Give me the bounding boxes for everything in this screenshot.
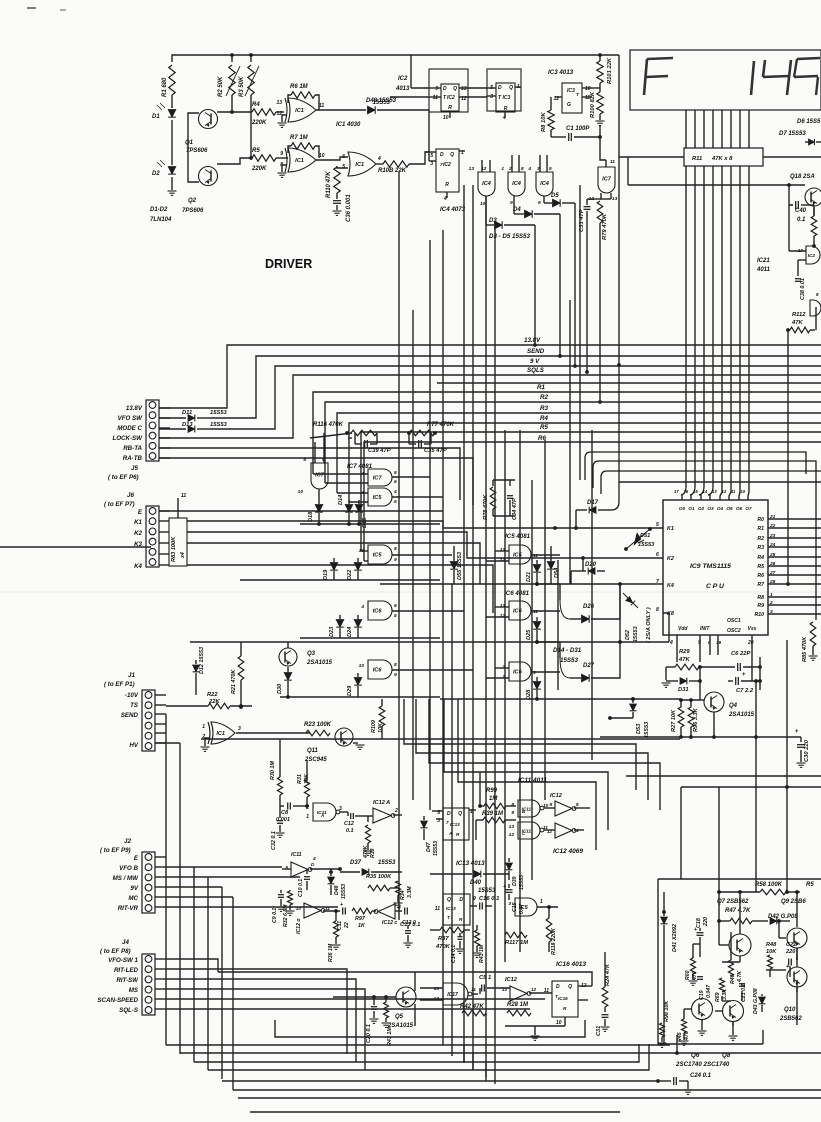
- svg-text:11: 11: [435, 906, 440, 912]
- wire R11 to CPU bus: [685, 166, 687, 486]
- capacitor C32: [279, 806, 281, 818]
- resistor R79: [610, 193, 612, 199]
- svg-text:D6 15S5: D6 15S5: [797, 119, 821, 125]
- svg-text:-10V: -10V: [125, 692, 139, 699]
- capacitor C35: [408, 433, 410, 444]
- svg-text:1: 1: [306, 814, 309, 820]
- ground Q8: [732, 1022, 734, 1035]
- svg-text:15S53: 15S53: [210, 410, 228, 416]
- display digit 4: [763, 60, 791, 95]
- wire bottom bus 7: [238, 1097, 821, 1099]
- svg-text:D: D: [443, 86, 447, 92]
- svg-text:C P U: C P U: [706, 583, 725, 590]
- svg-text:220K: 220K: [251, 120, 267, 126]
- svg-text:4013: 4013: [395, 86, 410, 92]
- svg-text:R24 47K: R24 47K: [605, 963, 611, 986]
- svg-text:6: 6: [656, 552, 659, 558]
- LED D2: [171, 120, 173, 165]
- wire trunk v4: [442, 230, 444, 972]
- svg-text:R22: R22: [207, 692, 218, 698]
- svg-text:Q9 2SB6: Q9 2SB6: [781, 899, 806, 905]
- wire col 719: [718, 787, 720, 879]
- wire ff1 left feed: [390, 96, 429, 98]
- svg-text:5: 5: [394, 499, 397, 505]
- resistor R117: [505, 932, 527, 938]
- ic IC2 outer box: [429, 69, 468, 112]
- wire gate row tie: [300, 523, 440, 525]
- wire K1 net: [187, 521, 663, 528]
- wire bottom bus 5: [222, 1080, 658, 1082]
- svg-text:J5: J5: [131, 465, 138, 472]
- ic IC3 ff: [496, 83, 515, 112]
- svg-text:C21 0.1: C21 0.1: [741, 984, 747, 1002]
- wire D41 col: [662, 910, 666, 914]
- svg-text:+: +: [795, 729, 799, 735]
- wire CPU R pin: [768, 518, 821, 520]
- wire display bus: [685, 110, 687, 148]
- ic IC5c gate: [509, 545, 531, 564]
- power section box: [658, 878, 821, 880]
- ground R60: [692, 974, 694, 980]
- svg-text:IC13: IC13: [446, 906, 456, 911]
- wire R22 junction: [239, 704, 243, 708]
- svg-text:R11: R11: [692, 156, 702, 162]
- wire IC16 pins: [578, 985, 592, 987]
- wire bus R3: [337, 413, 821, 493]
- svg-text:D: D: [498, 85, 502, 91]
- svg-text:A: A: [320, 813, 324, 818]
- display digit 1: [751, 61, 754, 95]
- transistor Q7: [729, 934, 751, 956]
- wire left trunk 5: [221, 887, 223, 1079]
- wire C21 down: [741, 991, 743, 1001]
- wire row 776: [626, 775, 821, 777]
- wire bus R6: [364, 442, 821, 561]
- wire ff3 left net: [428, 110, 430, 161]
- wire Q18 emitter chain: [813, 207, 815, 216]
- wire col 787: [786, 640, 788, 879]
- svg-text:IC2: IC2: [443, 162, 451, 168]
- svg-text:Vdd: Vdd: [678, 626, 688, 632]
- xor gate IC1a: [288, 98, 316, 122]
- svg-text:LOCK-SW: LOCK-SW: [112, 435, 143, 442]
- wire row 737: [600, 736, 801, 738]
- wire R112 column: [787, 330, 789, 584]
- ground R98: [661, 1037, 663, 1042]
- wire Q7 base: [719, 944, 729, 946]
- wire bus RA-TB row: [159, 458, 473, 505]
- svg-text:R117 1M: R117 1M: [505, 940, 528, 946]
- svg-text:R23 100K: R23 100K: [304, 722, 332, 728]
- svg-text:D: D: [459, 897, 463, 903]
- svg-text:R28 1M: R28 1M: [507, 1002, 529, 1008]
- svg-text:9: 9: [280, 151, 283, 157]
- resistor R1: [169, 65, 175, 95]
- diode D30: [287, 667, 289, 672]
- svg-text:R79 470K: R79 470K: [602, 213, 608, 240]
- diode D3: [485, 196, 487, 225]
- svg-text:C31: C31: [596, 1026, 602, 1036]
- diode D39: [508, 858, 510, 862]
- svg-text:10: 10: [741, 489, 746, 494]
- svg-text:15S53: 15S53: [341, 884, 347, 899]
- svg-text:Q: Q: [568, 984, 572, 990]
- svg-text:19: 19: [716, 640, 722, 645]
- wire bus 9V: [210, 366, 821, 429]
- svg-text:RA-TB: RA-TB: [123, 455, 143, 462]
- diode D22: [354, 563, 362, 571]
- svg-text:10: 10: [585, 86, 591, 92]
- ic IC7 gate down: [598, 167, 615, 193]
- svg-text:IC1: IC1: [295, 158, 304, 164]
- wire gate lower out: [236, 732, 310, 734]
- wire D17 to K1: [575, 510, 577, 528]
- svg-text:D47: D47: [426, 841, 432, 852]
- wire bottom bus 2: [180, 1052, 821, 1054]
- diode D40: [430, 873, 472, 875]
- wire bus loop extra: [619, 481, 821, 483]
- diode D14: [345, 505, 353, 513]
- svg-text:OSC2: OSC2: [727, 628, 741, 634]
- diode D17: [598, 509, 611, 511]
- wire trunk v17: [591, 430, 593, 760]
- resistor R100: [597, 92, 603, 114]
- wire IC6c stubs: [495, 606, 509, 608]
- svg-text:R112: R112: [792, 312, 806, 318]
- svg-text:IC12: IC12: [550, 793, 563, 799]
- svg-text:IC21: IC21: [757, 258, 770, 264]
- svg-text:+: +: [694, 927, 697, 933]
- wire ff3 pins: [425, 151, 436, 153]
- svg-text:D41 X2092: D41 X2092: [672, 923, 678, 952]
- svg-text:IC1: IC1: [295, 108, 304, 114]
- wire Q6 base: [684, 1008, 691, 1010]
- svg-text:D54: D54: [554, 567, 560, 578]
- svg-text:8: 8: [816, 292, 819, 297]
- diode D51 diagonal: [626, 529, 650, 549]
- capacitor C10: [306, 869, 308, 874]
- transistor Q8: [723, 1001, 744, 1022]
- wire bus extra1: [437, 382, 821, 384]
- wire Q1 Q2 emitters: [188, 113, 199, 182]
- transistor Q9b: [787, 967, 807, 987]
- svg-text:x4: x4: [180, 552, 186, 559]
- svg-text:( to EF P8): ( to EF P8): [100, 948, 131, 955]
- svg-text:( to EF P7): ( to EF P7): [104, 501, 135, 508]
- svg-text:C40: C40: [795, 208, 807, 214]
- svg-text:IC12 o: IC12 o: [296, 918, 302, 934]
- wire gate row tie3: [300, 637, 440, 639]
- svg-text:C6 22P: C6 22P: [731, 651, 750, 657]
- svg-text:3: 3: [508, 901, 511, 907]
- wire Q4 emitter down: [713, 712, 715, 737]
- wire trunk v11: [519, 430, 521, 952]
- svg-text:11: 11: [731, 489, 736, 494]
- wire R45 to bus: [676, 1035, 678, 1053]
- svg-text:R5: R5: [757, 564, 764, 570]
- ic IC12D inv: [304, 903, 321, 918]
- diode D15: [355, 505, 363, 513]
- svg-text:R100 82K: R100 82K: [590, 91, 596, 118]
- wire left trunk 4: [207, 877, 209, 1070]
- wire loop box lower: [275, 1020, 585, 1037]
- svg-text:D19: D19: [323, 569, 329, 580]
- svg-text:R2 50K: R2 50K: [218, 76, 224, 97]
- svg-text:R7 1M: R7 1M: [290, 135, 309, 141]
- svg-text:10: 10: [359, 663, 365, 669]
- svg-text:DRIVER: DRIVER: [265, 257, 312, 271]
- svg-text:R41 1M: R41 1M: [479, 944, 485, 963]
- capacitor C20: [371, 1006, 377, 1008]
- wire trunk v7: [472, 185, 474, 1070]
- wire R11 right: [763, 156, 821, 158]
- svg-text:D2: D2: [152, 171, 160, 177]
- svg-text:13: 13: [434, 986, 440, 992]
- svg-text:D26: D26: [583, 604, 595, 610]
- wire IC7b out: [392, 476, 430, 478]
- svg-text:11: 11: [471, 987, 476, 993]
- diode D48: [330, 869, 332, 872]
- svg-text:D4: D4: [513, 207, 521, 213]
- svg-text:K4: K4: [667, 583, 674, 589]
- svg-text:2: 2: [305, 805, 309, 811]
- svg-text:Q1: Q1: [185, 140, 194, 146]
- transistor Q9: [787, 928, 807, 948]
- svg-text:OSC1: OSC1: [727, 618, 741, 624]
- svg-text:R5: R5: [806, 882, 814, 888]
- wire trunk v1: [398, 172, 400, 920]
- svg-text:D25: D25: [526, 629, 532, 640]
- svg-text:Q4: Q4: [729, 703, 738, 709]
- svg-text:IC6: IC6: [513, 609, 523, 615]
- svg-text:4: 4: [669, 640, 673, 646]
- svg-text:K4: K4: [134, 563, 142, 570]
- svg-text:D7 15S53: D7 15S53: [779, 131, 806, 137]
- wire Q2 to R5: [217, 158, 252, 164]
- svg-text:R8 10K: R8 10K: [541, 112, 547, 132]
- svg-text:R1 680: R1 680: [162, 77, 168, 97]
- ic IC9 CPU box: [663, 500, 768, 635]
- transistor Q2: [199, 167, 218, 186]
- svg-text:IC7: IC7: [373, 476, 383, 482]
- svg-text:13.8V: 13.8V: [524, 337, 541, 344]
- svg-text:IC1 4030: IC1 4030: [336, 122, 361, 128]
- wire D17 feed: [611, 365, 619, 510]
- ic IC5d gate: [515, 898, 537, 916]
- svg-text:MODE C: MODE C: [117, 425, 142, 432]
- svg-text:C10 0.1: C10 0.1: [298, 879, 304, 897]
- diode D18: [318, 500, 320, 504]
- svg-text:Q8: Q8: [722, 1052, 731, 1059]
- svg-text:8: 8: [511, 802, 514, 808]
- svg-text:Q3: Q3: [307, 651, 316, 657]
- ic IC6d gate: [509, 662, 531, 681]
- diode D19: [330, 563, 338, 571]
- wire IC17 inputs: [420, 987, 443, 989]
- svg-text:R98 10K: R98 10K: [664, 1000, 670, 1022]
- svg-text:R33: R33: [370, 848, 376, 858]
- svg-text:6: 6: [394, 603, 397, 609]
- wire left trunk 3: [193, 867, 195, 1062]
- svg-text:+: +: [503, 884, 506, 890]
- wire left edge line: [0, 546, 151, 548]
- capacitor C15: [508, 884, 510, 888]
- wire right edge col: [815, 307, 817, 330]
- svg-text:Q: Q: [509, 85, 513, 91]
- svg-text:9: 9: [435, 86, 438, 92]
- ic IC4 and gates down: [478, 172, 495, 196]
- wire R3 down: [250, 95, 252, 158]
- svg-text:D: D: [556, 984, 560, 990]
- wire trunk v16: [579, 185, 581, 480]
- capacitor C38: [795, 278, 801, 280]
- svg-text:1: 1: [202, 724, 205, 730]
- svg-text:SCAN-SPEED: SCAN-SPEED: [97, 997, 138, 1004]
- wire Q9 base: [779, 937, 786, 939]
- wire D49 right: [377, 109, 429, 111]
- svg-text:15S53: 15S53: [210, 422, 228, 428]
- svg-text:1M: 1M: [489, 796, 498, 802]
- svg-text:D13: D13: [182, 422, 193, 428]
- svg-text:Q6: Q6: [691, 1052, 700, 1059]
- capacitor C40: [788, 185, 790, 205]
- svg-text:IC12: IC12: [505, 977, 518, 983]
- svg-text:10K: 10K: [766, 949, 777, 955]
- svg-text:IC5: IC5: [373, 553, 383, 559]
- wire D3 drop: [534, 225, 536, 345]
- svg-text:4: 4: [393, 489, 397, 495]
- svg-text:IC16: IC16: [558, 996, 568, 1001]
- wire bus loop R9: [593, 461, 816, 620]
- svg-text:13: 13: [712, 489, 717, 494]
- svg-text:220K: 220K: [251, 166, 267, 172]
- diode D24: [354, 620, 362, 628]
- svg-text:Q: Q: [453, 86, 457, 92]
- svg-text:IC1: IC1: [216, 731, 225, 737]
- wire CPU R pin: [768, 604, 821, 606]
- ic IC3 outer box: [487, 69, 521, 111]
- svg-text:9 V: 9 V: [530, 358, 540, 365]
- resistor R109: [379, 706, 385, 726]
- svg-text:8: 8: [576, 802, 579, 807]
- svg-text:4: 4: [360, 471, 364, 477]
- wire R2 to Q1 base: [231, 95, 233, 112]
- wire Q10 base: [779, 969, 786, 971]
- svg-text:R6 1M: R6 1M: [290, 84, 309, 90]
- svg-text:IC11: IC11: [291, 852, 302, 858]
- resistor R37: [440, 927, 464, 933]
- svg-text:5: 5: [394, 613, 397, 619]
- svg-text:R: R: [445, 182, 449, 188]
- ic IC13 ff upper: [443, 808, 469, 840]
- svg-text:R10B 22K: R10B 22K: [378, 168, 407, 174]
- wire bus R1: [313, 392, 821, 474]
- svg-text:47K: 47K: [791, 320, 803, 326]
- wire CPU R pin: [768, 546, 821, 548]
- ground IC16: [531, 1035, 540, 1037]
- resistor R47 body: [730, 918, 752, 924]
- wire CPU R pin: [768, 556, 821, 558]
- or gate IC1c: [348, 152, 376, 176]
- ground Q11: [353, 742, 358, 744]
- svg-text:R29: R29: [679, 649, 690, 655]
- svg-text:IC2: IC2: [398, 76, 408, 82]
- svg-text:Q11: Q11: [307, 748, 319, 754]
- wire K2 net: [187, 532, 663, 558]
- resistor R113: [811, 216, 817, 236]
- svg-text:D40: D40: [470, 880, 482, 886]
- svg-text:220: 220: [785, 949, 796, 955]
- svg-text:R34: R34: [400, 890, 406, 900]
- capacitor C31: [602, 1014, 609, 1016]
- svg-text:R47 4.7K: R47 4.7K: [725, 908, 751, 914]
- svg-text:4: 4: [312, 856, 316, 862]
- svg-text:C38 0.01: C38 0.01: [800, 278, 806, 300]
- svg-text:( to EF P9): ( to EF P9): [100, 847, 131, 854]
- svg-text:22: 22: [344, 922, 350, 929]
- wire left trunk 2: [179, 744, 181, 1054]
- svg-text:0.1: 0.1: [797, 217, 806, 223]
- svg-text:IC6: IC6: [373, 668, 383, 674]
- svg-text:MC: MC: [128, 895, 138, 902]
- svg-text:10: 10: [556, 1020, 562, 1026]
- svg-text:IC6: IC6: [513, 670, 523, 676]
- svg-text:5: 5: [285, 865, 288, 871]
- wire R4 to gate: [276, 111, 284, 113]
- wire col 681: [680, 787, 682, 879]
- svg-text:R: R: [448, 105, 452, 111]
- svg-text:IC17: IC17: [447, 992, 458, 998]
- svg-text:D1-D2: D1-D2: [150, 207, 168, 213]
- wire trunk v14: [557, 560, 559, 690]
- svg-text:R83 100K: R83 100K: [171, 536, 177, 562]
- wire bus RB-TA row: [159, 448, 460, 500]
- svg-text:C5 1: C5 1: [479, 975, 491, 981]
- svg-text:11: 11: [533, 609, 538, 615]
- svg-text:C20 0.1: C20 0.1: [366, 1024, 372, 1043]
- svg-text:D: D: [440, 152, 444, 158]
- ic IC13 ff lower: [443, 894, 470, 925]
- wire bottom bus 3: [194, 1044, 639, 1062]
- wire Q5 collector: [414, 972, 416, 991]
- capacitor C13b: [404, 908, 406, 915]
- svg-text:3: 3: [430, 161, 433, 167]
- svg-text:4: 4: [360, 490, 364, 496]
- svg-text:D23: D23: [329, 626, 335, 637]
- svg-text:D3: D3: [489, 218, 497, 224]
- svg-text:0.047: 0.047: [706, 984, 712, 998]
- svg-text:IC12 4069: IC12 4069: [553, 848, 583, 855]
- wire Q5 base row: [333, 996, 396, 998]
- transistor Q3 feed wire: [287, 642, 289, 648]
- svg-text:16: 16: [684, 489, 689, 494]
- svg-text:7LN104: 7LN104: [150, 217, 172, 223]
- svg-text:SQLS: SQLS: [527, 367, 545, 374]
- svg-text:O7: O7: [745, 506, 752, 511]
- ic IC12 inv b: [555, 823, 572, 838]
- scan fold line: [0, 591, 821, 593]
- svg-text:4: 4: [527, 166, 531, 172]
- svg-text:D51: D51: [640, 533, 650, 539]
- resistor R101: [597, 61, 603, 83]
- wire bottom trunk drops: [442, 972, 444, 1045]
- wire IC6b out: [392, 669, 473, 671]
- wire D4 drop: [559, 214, 561, 356]
- capacitor C12: [347, 812, 349, 816]
- svg-text:IC4 4073: IC4 4073: [440, 206, 466, 213]
- svg-text:13: 13: [276, 100, 282, 106]
- resistor R10B: [383, 161, 409, 167]
